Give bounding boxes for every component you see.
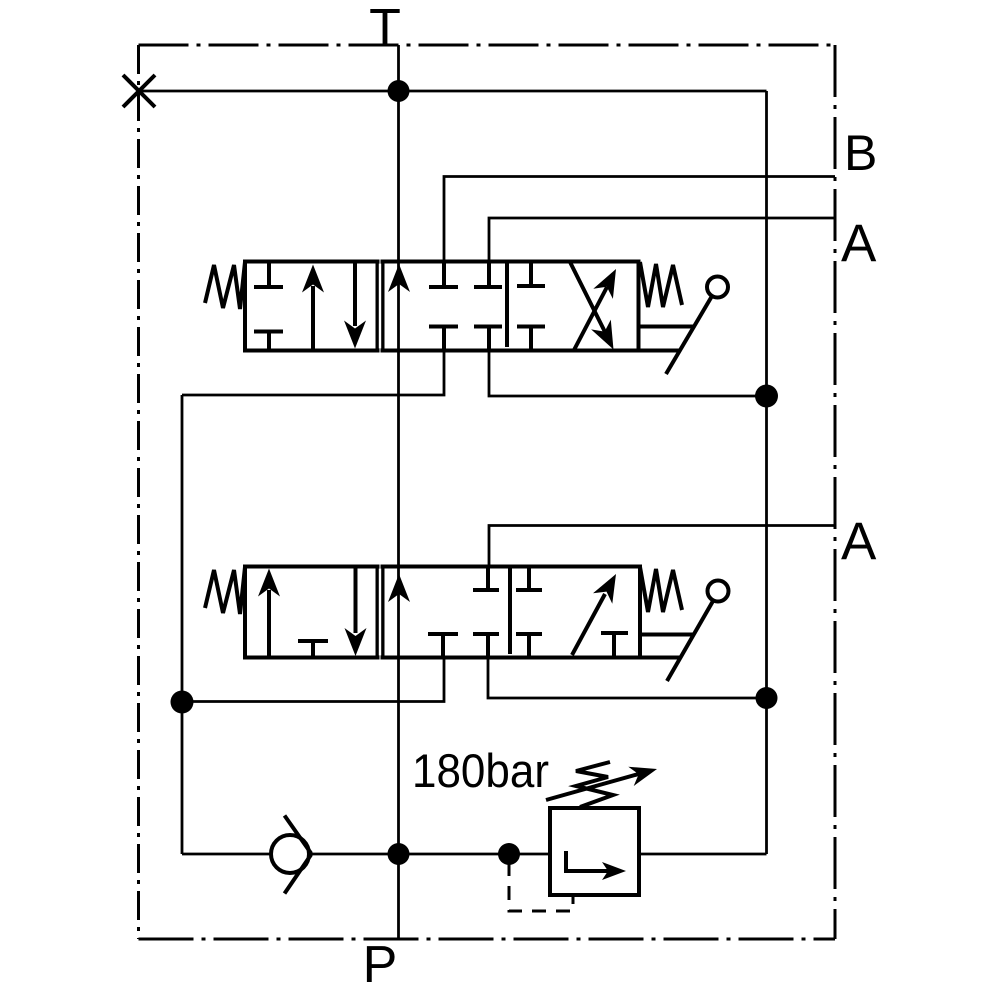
check valve CV1 seat [285,816,311,894]
valve V1 box2 main flow up arrowhead (on P-T line) [388,264,410,292]
junction dot riser/valve2 return [756,687,778,709]
wire: valve1 right drop to tank riser junction [489,351,767,397]
valve V2 lever arm [667,601,713,681]
valve V1 position box 1 [245,262,378,351]
junction dot bottom bus / P line [388,843,410,865]
wire: valve2 right drop to tank riser junction [488,658,767,699]
valve V1 box1 blocked port top [254,262,283,288]
valve V2 right return spring [640,567,682,612]
wire: check valve to relief valve inlet [309,853,550,856]
valve V2 box1 down arrow [345,567,367,657]
relief valve RV1 internal flow arrow [566,851,626,880]
enclosure border right edge (dash-dot) [834,45,837,939]
relief valve RV1 pilot line (dashed) [509,862,573,911]
valve V1 left return spring [205,262,245,309]
relief valve RV1 adjustment arrow [546,767,657,800]
valve V1 double-divider gap [379,264,381,349]
valve V1 box3 blocked port top [517,262,545,287]
valve V1 position boxes 2-3 [383,262,639,351]
wire: right tank riser x=766 [765,91,768,854]
relief valve RV1 body [550,808,639,895]
wire: valve1 left return drop to left bus [182,351,444,396]
valve V1 right return spring [640,262,682,307]
svg-text:P: P [363,936,398,994]
valve V1 box1 up arrow [302,265,324,351]
valve V2 position boxes 2-3 [383,567,641,658]
valve V2 box3 metering up arrow [572,574,616,655]
valve V2 box1 blocked port bottom [298,641,328,658]
svg-text:A: A [841,512,877,571]
wire: bottom pressure bus to check valve [182,853,271,856]
valve V2 left return spring [205,567,245,614]
wire: main P-T vertical line x=399 [397,45,400,939]
valve V1 box2 port stub B (stem through top) [429,262,458,288]
svg-text:180bar: 180bar [412,744,549,797]
valve V2 lever bracket lines [640,635,693,658]
valve V1 box1 down arrow [344,262,366,349]
wire: A line (upper) to port A [489,218,835,262]
valve V2 box1 up arrow [258,569,280,658]
valve V1 lever knob [707,277,728,298]
valve V1 lever bracket lines [639,327,695,351]
svg-text:B: B [844,125,877,181]
valve V1 box3 crossed arrow up [574,269,616,350]
wire: left bus vertical x=182 [181,395,184,854]
junction dot bottom bus / relief pilot [498,843,520,865]
wire: B line to port B [444,177,835,262]
enclosure border bottom edge (dash-dot) [139,938,836,941]
plugged port X symbol on boundary [123,75,155,107]
valve V2 box3 blocked port bottom left [516,634,542,658]
svg-text:T: T [369,0,401,57]
valve V2 box3 blocked port top [516,567,542,591]
check valve CV1 ball [271,835,309,873]
valve V2 double-divider gap [379,569,381,656]
enclosure border top edge (dash-dot) [139,44,836,47]
valve V1 box2 port stub A (stem through top) [474,262,502,288]
wire: T header line from plug to right riser [139,90,767,93]
junction dot left bus/valve2 drop [171,691,194,714]
enclosure border left edge (dash-dot) [137,45,140,939]
junction dot riser/valve1 return [755,385,778,408]
valve V2 divider between box2 and box3 [508,567,512,655]
junction dot at T header [388,80,410,102]
valve V1 box3 crossed arrow down [570,262,614,350]
valve V2 box2 bottom stub 2 [473,634,499,658]
svg-text:A: A [841,214,877,273]
valve V1 box3 blocked port bottom [517,327,545,351]
valve V2 lever knob [708,581,729,602]
valve V1 box2 bottom stub 1 [429,327,458,351]
valve V2 box2 main flow up arrowhead (on P-T line) [388,574,410,602]
valve V2 box2 port stub A (stem through top) [473,567,499,591]
wire: relief valve outlet to tank riser [639,853,767,856]
valve V1 box1 blocked port bottom [254,332,283,351]
valve V1 lever arm [666,296,712,374]
relief valve RV1 spring [576,762,613,807]
wire: A line (lower) to port A [489,526,835,567]
wire: valve2 left drop to left bus [182,658,444,702]
valve V1 box2 bottom stub 2 [474,327,502,351]
valve V1 divider between box2 and box3 [505,262,509,348]
valve V2 box2 bottom stub 1 [428,634,458,658]
valve V2 position box 1 [245,567,378,658]
valve V2 box3 blocked port bottom right [601,633,628,658]
